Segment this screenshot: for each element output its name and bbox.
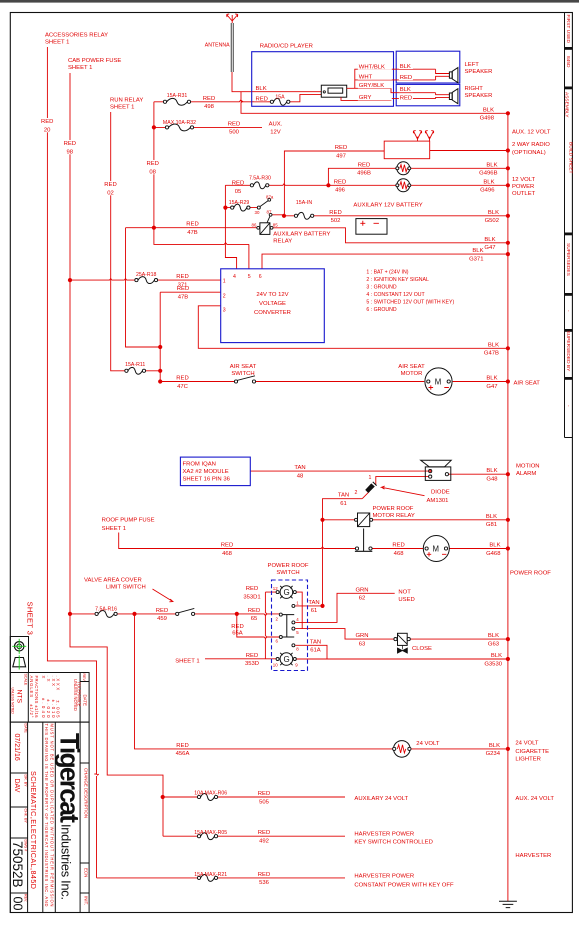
- svg-text:05: 05: [235, 189, 242, 195]
- svg-text:7.5A-R30: 7.5A-R30: [249, 176, 271, 182]
- svg-text:30: 30: [255, 210, 260, 215]
- svg-text:AIR SEAT: AIR SEAT: [230, 364, 257, 370]
- svg-text:CHK. BY: CHK. BY: [24, 809, 28, 824]
- svg-text:RED: RED: [400, 96, 412, 102]
- svg-text:RED: RED: [176, 376, 188, 382]
- svg-text:BLK: BLK: [488, 342, 499, 348]
- svg-text:SHEET 1: SHEET 1: [68, 65, 92, 71]
- air seat motor: [425, 368, 452, 395]
- wire GRN 62 pin 4 line (not used): [295, 593, 394, 622]
- fuse 10A MAX-R06: [197, 794, 217, 801]
- svg-text:G502: G502: [485, 218, 499, 224]
- wire RED 98 cab power fuse net: [70, 73, 163, 836]
- svg-text:63: 63: [359, 641, 366, 647]
- fuse 15A-IN: [294, 212, 313, 219]
- svg-text:ROOF PUMP FUSE: ROOF PUMP FUSE: [102, 517, 155, 523]
- svg-text:SHEET 1: SHEET 1: [110, 104, 134, 110]
- svg-text:492: 492: [259, 839, 269, 845]
- svg-text:G47B: G47B: [484, 351, 499, 357]
- svg-text:G371: G371: [469, 256, 483, 262]
- svg-text:DATE: DATE: [82, 695, 87, 706]
- wire BLK G3530 line to bus: [296, 658, 508, 660]
- wire RED 353D sheet 1 line to pin 10: [205, 658, 276, 660]
- svg-text:RED: RED: [221, 543, 233, 549]
- svg-text:BUILD SHEET: BUILD SHEET: [567, 142, 573, 174]
- svg-text:SUPERSEDES: SUPERSEDES: [565, 243, 571, 276]
- svg-text:POWER: POWER: [512, 184, 534, 190]
- fuse 15A-R31: [163, 98, 190, 105]
- wire RED 498 fuse 15A-R31 line to radio: [154, 94, 321, 101]
- power roof motor relay coil: [355, 513, 373, 527]
- svg-text:20: 20: [44, 127, 51, 133]
- svg-text:15A-R11: 15A-R11: [125, 362, 145, 368]
- svg-text:CIGARETTE: CIGARETTE: [515, 749, 549, 755]
- speaker box left: [396, 51, 460, 83]
- svg-text:SUPERSEDED BY: SUPERSEDED BY: [565, 331, 571, 373]
- svg-text:SHEET 1: SHEET 1: [175, 658, 199, 664]
- svg-text:02: 02: [107, 190, 114, 196]
- svg-text:TAN: TAN: [308, 600, 319, 606]
- svg-text:2 : IGNITION KEY SIGNAL: 2 : IGNITION KEY SIGNAL: [366, 277, 429, 283]
- svg-text:RED: RED: [228, 121, 240, 127]
- close solenoid valve: [394, 633, 410, 653]
- svg-text:AIR SEAT: AIR SEAT: [398, 364, 425, 370]
- svg-text:THIS DRAWING IS THE PROPERTY O: THIS DRAWING IS THE PROPERTY OF TIGERCAT…: [44, 724, 49, 907]
- fuse 15A radio: [270, 98, 290, 105]
- power roof switch pins: [279, 604, 295, 646]
- power roof switch contact bar: [282, 615, 294, 637]
- svg-text:RED: RED: [248, 608, 260, 614]
- svg-text:3: 3: [223, 307, 226, 313]
- svg-text:536: 536: [259, 880, 270, 886]
- svg-text:07/21/16: 07/21/16: [13, 734, 20, 761]
- ground symbol: [499, 901, 517, 907]
- svg-text:NTS: NTS: [15, 690, 22, 704]
- wire TAN 61 net: [323, 499, 363, 606]
- svg-text:WHT/BLK: WHT/BLK: [359, 64, 385, 70]
- svg-text:RED: RED: [64, 141, 76, 147]
- svg-text:G496: G496: [480, 188, 495, 194]
- svg-text:498: 498: [204, 104, 215, 110]
- junction dots: [506, 111, 510, 115]
- svg-text:ECN: ECN: [83, 868, 88, 877]
- svg-text:SWITCH: SWITCH: [231, 371, 254, 377]
- svg-text:RED: RED: [246, 653, 258, 659]
- wire left speaker joins: [436, 69, 450, 80]
- svg-text:G496B: G496B: [479, 171, 497, 177]
- wire BLK G371 converter pin6 ground: [262, 254, 508, 269]
- svg-text:AUXILARY 24 VOLT: AUXILARY 24 VOLT: [354, 796, 408, 802]
- svg-text:G48: G48: [486, 477, 498, 483]
- svg-text:(OPTIONAL): (OPTIONAL): [512, 150, 546, 156]
- wire GRN 63 pin 5 line to close solenoid: [295, 629, 508, 640]
- svg-text:ANGLES ±1/2°: ANGLES ±1/2°: [29, 676, 34, 718]
- svg-text:AUX.: AUX.: [269, 121, 283, 127]
- svg-text:12V: 12V: [270, 130, 281, 136]
- wire RED 353D1 pin 12 link: [265, 592, 276, 659]
- svg-text:RED: RED: [335, 145, 347, 151]
- svg-text:OUTLET: OUTLET: [512, 191, 536, 197]
- svg-text:MAX 10A-R32: MAX 10A-R32: [163, 120, 196, 126]
- svg-text:87: 87: [267, 210, 272, 215]
- svg-text:BLK: BLK: [486, 468, 497, 474]
- svg-text:G: G: [284, 655, 290, 664]
- svg-text:AUXILARY BATTERY: AUXILARY BATTERY: [273, 232, 330, 238]
- svg-text:USED: USED: [398, 597, 414, 603]
- svg-text:61A: 61A: [310, 648, 321, 654]
- title block row 1 (tolerances): [10, 673, 89, 723]
- wire RED 468 power roof motor line: [119, 533, 508, 549]
- svg-text:POWER ROOF: POWER ROOF: [268, 563, 309, 569]
- svg-text:24 VOLT: 24 VOLT: [515, 741, 539, 747]
- svg-text:CONVERTER: CONVERTER: [254, 310, 291, 316]
- fuse 7.5A-R30: [250, 182, 269, 189]
- svg-text:RELAY: RELAY: [273, 239, 292, 245]
- svg-text:ASSEMBLY: ASSEMBLY: [563, 92, 569, 118]
- svg-text:65A: 65A: [232, 631, 243, 637]
- antenna: [227, 14, 238, 72]
- svg-text:3 : GROUND: 3 : GROUND: [366, 285, 397, 291]
- wire RED 371 fuse 25A-R18 line to converter pin 1: [70, 279, 221, 281]
- svg-text:FIRST USED: FIRST USED: [565, 15, 571, 44]
- svg-text:AM1301: AM1301: [427, 498, 449, 504]
- wire BLK G81 roof relay coil return: [371, 519, 508, 521]
- power roof motor: [423, 536, 449, 562]
- svg-text:RED: RED: [203, 96, 215, 102]
- svg-text:BLK: BLK: [489, 543, 500, 549]
- svg-text:47B: 47B: [178, 295, 189, 301]
- svg-text:RUN RELAY: RUN RELAY: [110, 98, 143, 104]
- svg-text:RED: RED: [358, 162, 370, 168]
- svg-text:98: 98: [67, 149, 74, 155]
- svg-text:BLK: BLK: [486, 376, 497, 382]
- wire WHT/BLK speaker line: [355, 69, 436, 88]
- svg-text:SHEET 1: SHEET 1: [45, 40, 69, 46]
- svg-text:RED: RED: [156, 608, 168, 614]
- power roof motor relay contact: [355, 529, 372, 552]
- svg-text:505: 505: [259, 799, 270, 805]
- svg-text:5: 5: [248, 274, 251, 280]
- svg-text:845D: 845D: [565, 56, 571, 68]
- right speaker: [449, 89, 458, 104]
- svg-text:15A MAX-R05: 15A MAX-R05: [194, 830, 227, 836]
- wire BLK G47 relay coil return: [272, 228, 508, 243]
- fuse 15A MAX-R21: [197, 874, 217, 881]
- svg-text:G47: G47: [486, 384, 497, 390]
- svg-text:500: 500: [229, 130, 240, 136]
- svg-text:VOLTAGE: VOLTAGE: [259, 301, 286, 307]
- svg-text:4 : CONSTANT 12V OUT: 4 : CONSTANT 12V OUT: [366, 292, 425, 298]
- auxiliary 12V battery: [356, 219, 387, 235]
- svg-text:UNLESS NOTED: UNLESS NOTED: [73, 679, 78, 711]
- diode label leader arrow: [382, 486, 425, 496]
- speaker box right: [396, 84, 460, 105]
- svg-text:AUX. 24 VOLT: AUX. 24 VOLT: [515, 796, 554, 802]
- svg-text:ANTENNA: ANTENNA: [205, 42, 230, 48]
- svg-text:6 : GROUND: 6 : GROUND: [366, 307, 397, 313]
- svg-text:G498: G498: [480, 116, 495, 122]
- svg-text:SWITCH: SWITCH: [276, 570, 299, 576]
- svg-text:BLK: BLK: [484, 237, 495, 243]
- cigarette lighter outlet: [393, 741, 411, 758]
- svg-text:7.5A-R16: 7.5A-R16: [95, 606, 117, 612]
- fuse 25A-R18: [135, 277, 158, 284]
- svg-text:M: M: [435, 378, 442, 387]
- svg-text:BLK: BLK: [488, 633, 499, 639]
- svg-text:MUST NOT BE USED OR DUPLICATED: MUST NOT BE USED OR DUPLICATED WITHOUT T…: [49, 724, 54, 907]
- svg-text:LIMIT SWITCH: LIMIT SWITCH: [106, 584, 146, 590]
- svg-text:FROM IQAN: FROM IQAN: [183, 462, 216, 468]
- svg-text:TAN: TAN: [338, 493, 349, 499]
- svg-text:DAV: DAV: [13, 779, 20, 793]
- wire BLK G47B converter pin3 ground: [198, 306, 508, 349]
- svg-text:XA2 #2 MODULE: XA2 #2 MODULE: [183, 469, 229, 475]
- svg-text:87a: 87a: [266, 194, 274, 199]
- svg-text:CONSTANT POWER WITH KEY OF: CONSTANT POWER WITH KEY OFF: [354, 882, 454, 888]
- svg-text:456A: 456A: [176, 751, 190, 757]
- radio/cd player box: [252, 52, 394, 107]
- IQAN module box: [180, 457, 250, 486]
- 24V to 12V voltage converter box: [221, 269, 325, 343]
- svg-text:RED: RED: [176, 743, 188, 749]
- wire RED 502 15A-IN battery line: [272, 215, 508, 216]
- svg-text:GRY/BLK: GRY/BLK: [359, 83, 385, 89]
- wire RED 492 harvester key switch line: [163, 835, 345, 837]
- svg-text:RED: RED: [258, 830, 270, 836]
- svg-text:4: 4: [233, 274, 236, 280]
- svg-text:RIGHT: RIGHT: [465, 86, 484, 92]
- wire RED 05 / RED 496 power outlet line: [225, 184, 508, 186]
- svg-text:CAB POWER FUSE: CAB POWER FUSE: [68, 58, 121, 64]
- wire RED 20 accessories relay net: [47, 47, 98, 878]
- svg-text:RED: RED: [258, 791, 270, 797]
- svg-text:HARVESTER: HARVESTER: [515, 853, 551, 859]
- two-way radio (optional): [384, 131, 433, 159]
- svg-text:RED: RED: [256, 97, 268, 103]
- fuse MAX 10A-R32: [165, 124, 193, 131]
- svg-text:SHEET 16 PIN 36: SHEET 16 PIN 36: [183, 477, 231, 483]
- svg-text:RED: RED: [334, 179, 346, 185]
- auxiliary battery relay contact: [257, 198, 272, 222]
- wire TAN 61 pin 1 line: [295, 605, 322, 607]
- wire RED 497 two-way radio feed: [284, 151, 508, 216]
- svg-text:G: G: [284, 588, 290, 597]
- svg-text:15A-R31: 15A-R31: [167, 93, 188, 99]
- svg-text:BLK: BLK: [488, 210, 499, 216]
- svg-text:65: 65: [251, 616, 258, 622]
- svg-text:24 VOLT: 24 VOLT: [416, 741, 440, 747]
- svg-text:BLK: BLK: [400, 87, 411, 93]
- svg-text:Industries Inc.: Industries Inc.: [59, 824, 74, 900]
- power roof switch lamp G top: [276, 586, 296, 599]
- svg-text:POWER ROOF: POWER ROOF: [373, 506, 414, 512]
- svg-text:RED: RED: [246, 586, 258, 592]
- svg-text:BLK: BLK: [400, 64, 411, 70]
- svg-text:2: 2: [355, 490, 358, 496]
- svg-text:2 WAY RADIO: 2 WAY RADIO: [512, 142, 550, 148]
- wire RED 536 harvester constant line: [97, 877, 346, 879]
- fuse 7.5A-R16: [95, 610, 117, 617]
- wire RED 496B outlet branch: [328, 168, 508, 185]
- wire 15A-R11 air seat fuse line: [126, 370, 160, 372]
- svg-text:ACCESSORIES RELAY: ACCESSORIES RELAY: [45, 33, 108, 39]
- svg-text:G47: G47: [484, 245, 495, 251]
- svg-text:G81: G81: [486, 522, 497, 528]
- svg-text:AIR SEAT: AIR SEAT: [514, 380, 541, 386]
- svg-text:MOTION: MOTION: [516, 463, 540, 469]
- svg-text:AUXILARY 12V BATTERY: AUXILARY 12V BATTERY: [353, 202, 422, 208]
- wire top G lamp link to pin 5: [295, 592, 302, 629]
- svg-text:VALVE AREA COVER: VALVE AREA COVER: [84, 577, 142, 583]
- svg-text:25A-R18: 25A-R18: [136, 272, 157, 278]
- svg-text:RED: RED: [146, 161, 158, 167]
- svg-text:DATE: DATE: [24, 724, 28, 734]
- svg-text:ALARM: ALARM: [516, 471, 536, 477]
- svg-text:TAN: TAN: [310, 639, 321, 645]
- svg-text:BLK: BLK: [489, 743, 500, 749]
- svg-text:353D: 353D: [245, 661, 259, 667]
- svg-text:BLK: BLK: [256, 86, 267, 92]
- svg-text:AUX. 12 VOLT: AUX. 12 VOLT: [512, 130, 551, 136]
- motion alarm: [421, 460, 452, 480]
- svg-text:SPEAKER: SPEAKER: [465, 69, 493, 75]
- svg-text:RED: RED: [176, 274, 188, 280]
- svg-text:BLK: BLK: [486, 162, 497, 168]
- wire right speaker joins: [436, 93, 450, 99]
- auxiliary battery relay coil: [257, 223, 273, 235]
- svg-text:UNLESS NOTED: UNLESS NOTED: [11, 688, 15, 715]
- svg-text:LIGHTER: LIGHTER: [515, 756, 541, 762]
- svg-text:1: 1: [369, 475, 372, 481]
- svg-text:CHANGE DESCRIPTION: CHANGE DESCRIPTION: [83, 768, 88, 818]
- fuse 15A MAX-R05: [197, 833, 217, 840]
- svg-text:RED: RED: [392, 543, 404, 549]
- wire main ground bus: [507, 113, 509, 901]
- svg-text:SCHEMATIC,ELECTRICAL,845D: SCHEMATIC,ELECTRICAL,845D: [29, 771, 38, 889]
- revision sidebar column: [564, 13, 566, 438]
- svg-text:15A MAX-R21: 15A MAX-R21: [194, 872, 227, 878]
- wire converter pin4 feed: [225, 185, 236, 268]
- svg-text:12: 12: [273, 586, 278, 591]
- svg-text:GRN: GRN: [355, 633, 368, 639]
- svg-text:47B: 47B: [187, 230, 198, 236]
- svg-text:1: 1: [223, 278, 226, 284]
- svg-text:496: 496: [335, 188, 346, 194]
- svg-text:502: 502: [331, 218, 341, 224]
- svg-text:24V TO 12V: 24V TO 12V: [256, 292, 288, 298]
- wire GRY speaker line: [341, 97, 436, 100]
- svg-text:NOT: NOT: [398, 590, 411, 596]
- svg-text:48: 48: [297, 473, 304, 479]
- svg-text:RED: RED: [186, 222, 198, 228]
- svg-text:G63: G63: [488, 641, 500, 647]
- power roof switch lamp G bottom: [276, 653, 296, 666]
- fuse 15A-R29: [231, 204, 250, 211]
- fuse 15A-R11: [125, 367, 146, 374]
- wire RED 505 aux 24 volt line: [163, 796, 345, 798]
- svg-text:2: 2: [223, 293, 226, 299]
- svg-text:BLK: BLK: [483, 179, 494, 185]
- svg-text:DIODE: DIODE: [431, 490, 450, 496]
- svg-text:353D1: 353D1: [243, 594, 260, 600]
- svg-text:RED: RED: [41, 119, 53, 125]
- diode AM1301: [366, 482, 377, 493]
- svg-text:BLK: BLK: [483, 107, 494, 113]
- svg-text:1 : BAT + (24V IN): 1 : BAT + (24V IN): [366, 270, 408, 276]
- svg-text:SHEET 3: SHEET 3: [26, 602, 35, 636]
- svg-text:85: 85: [273, 222, 278, 227]
- svg-text:468: 468: [394, 551, 405, 557]
- svg-text:HARVESTER POWER: HARVESTER POWER: [354, 832, 414, 838]
- svg-text:LEFT: LEFT: [465, 62, 480, 68]
- svg-text:10A MAX-R06: 10A MAX-R06: [194, 791, 227, 797]
- wire GRY/BLK speaker line: [347, 88, 436, 92]
- svg-text:RED: RED: [231, 624, 243, 630]
- wire BLK G48 motion alarm return: [448, 473, 508, 475]
- svg-text:496B: 496B: [357, 171, 371, 177]
- svg-text:15A-IN: 15A-IN: [296, 200, 312, 206]
- svg-text:15A: 15A: [275, 95, 285, 101]
- svg-text:08: 08: [149, 169, 156, 175]
- svg-text:86: 86: [252, 222, 257, 227]
- svg-text:SPEAKER: SPEAKER: [465, 93, 493, 99]
- svg-text:47C: 47C: [177, 384, 189, 390]
- svg-text:62: 62: [359, 596, 366, 602]
- wire RED 02 run relay net: [111, 112, 127, 371]
- projection symbol box: [10, 637, 28, 673]
- svg-text:INIT.: INIT.: [83, 896, 88, 905]
- air seat switch: [234, 376, 255, 383]
- wire diode cathode to motion alarm: [362, 477, 428, 499]
- svg-text:GRY: GRY: [359, 95, 372, 101]
- svg-text:RED: RED: [400, 75, 412, 81]
- svg-text:G468: G468: [486, 551, 501, 557]
- svg-text:RED: RED: [258, 872, 270, 878]
- svg-text:KEY SWITCH CONTROLLED: KEY SWITCH CONTROLLED: [354, 840, 432, 846]
- svg-text:CLOSE: CLOSE: [412, 646, 432, 652]
- svg-text:GRN: GRN: [355, 587, 368, 593]
- svg-text:RED: RED: [177, 286, 189, 292]
- wire RED 65A branch to pin 6: [237, 614, 279, 639]
- svg-text:SHEET 1: SHEET 1: [102, 526, 126, 532]
- svg-text:BLK: BLK: [491, 653, 502, 659]
- svg-text:TAN: TAN: [294, 465, 305, 471]
- wire RED 47B net: [126, 228, 508, 382]
- svg-text:00: 00: [11, 897, 25, 911]
- wire TAN 48 from IQAN module to motion alarm: [250, 470, 428, 472]
- wire BLK antenna to radio ground net: [232, 72, 508, 113]
- wire RED 456A cigarette lighter line: [135, 614, 508, 749]
- power outlet 496: [396, 179, 411, 192]
- svg-text:SCALE: SCALE: [24, 674, 28, 686]
- svg-text:12 VOLT: 12 VOLT: [512, 177, 536, 183]
- svg-text:G3530: G3530: [484, 661, 502, 667]
- svg-text:MOTOR: MOTOR: [401, 371, 423, 377]
- svg-text:5 : SWITCHED 12V OUT (WITH KEY: 5 : SWITCHED 12V OUT (WITH KEY): [366, 300, 454, 306]
- wire RED 459 valve area cover line: [70, 614, 279, 616]
- svg-text:15A-R29: 15A-R29: [229, 200, 250, 206]
- top screen bar (decorative): [0, 0, 579, 3]
- svg-text:RED: RED: [104, 182, 116, 188]
- svg-text:POWER ROOF: POWER ROOF: [510, 570, 551, 576]
- svg-text:BLK: BLK: [486, 514, 497, 520]
- svg-text:10: 10: [273, 662, 278, 667]
- title block row 2: [10, 722, 89, 912]
- svg-text:6: 6: [259, 274, 262, 280]
- svg-text:RED: RED: [329, 210, 341, 216]
- svg-text:MOTOR RELAY: MOTOR RELAY: [373, 513, 415, 519]
- svg-text:61: 61: [340, 501, 347, 507]
